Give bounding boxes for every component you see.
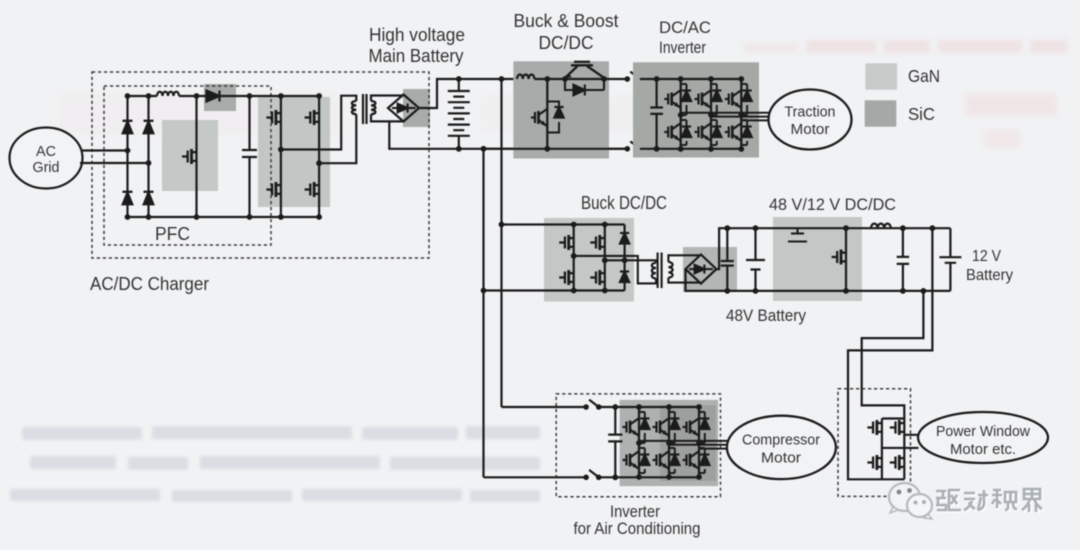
svg-text:PFC: PFC bbox=[155, 224, 190, 244]
inverter bottom rail bbox=[640, 148, 741, 150]
svg-text:SiC: SiC bbox=[908, 104, 935, 124]
svg-text:Motor: Motor bbox=[791, 121, 830, 138]
output inductor L3 bbox=[871, 224, 891, 229]
three phase wires to compressor motor bbox=[639, 441, 728, 449]
charger H-bridge left leg bbox=[280, 96, 282, 217]
faint pink ghost text top right bbox=[744, 40, 1068, 148]
antiparallel diode bbox=[547, 102, 559, 133]
buck H-bridge right leg bbox=[604, 225, 606, 291]
wire secondary to diamond bbox=[371, 96, 404, 122]
rectifier diode D4 bbox=[144, 192, 154, 204]
rectifier column 2 bbox=[147, 96, 149, 217]
window bridge left leg bbox=[881, 419, 883, 480]
node boost top bbox=[194, 93, 200, 99]
transformer T1 secondary winding bbox=[371, 101, 375, 114]
diamond internal diode bbox=[689, 265, 713, 274]
svg-text:12 V: 12 V bbox=[972, 248, 1001, 265]
wires to power window motor bbox=[882, 435, 919, 448]
transformer T1 core bbox=[363, 94, 367, 124]
SiC shaded box behind boost diode bbox=[204, 84, 236, 111]
junction dots rectifier bbox=[125, 93, 152, 220]
boost igbt leg bbox=[546, 79, 548, 149]
switch aircon top bbox=[583, 400, 601, 410]
boost mosfet Q1 bbox=[182, 149, 197, 164]
GaN shaded box behind charger H-bridge bbox=[258, 97, 330, 207]
top rail with inductor L2 bbox=[517, 75, 534, 80]
svg-text:Traction: Traction bbox=[785, 104, 836, 121]
svg-text:DC/AC: DC/AC bbox=[659, 18, 711, 37]
transformer T1 primary winding bbox=[352, 101, 356, 114]
Compressor Motor ellipse bbox=[727, 416, 836, 479]
aircon leg 2 bbox=[653, 404, 680, 480]
wechat watermark big bubble bbox=[889, 483, 920, 513]
aircon top rail bbox=[502, 406, 587, 408]
mosfet Q14 bbox=[867, 455, 882, 470]
buck output rectifier diamond bbox=[686, 255, 717, 284]
wire 12V node down to window bridge bottom bbox=[848, 228, 932, 479]
wire bridge left mid to transformer T2 bottom bbox=[574, 256, 656, 284]
charger H-bridge right leg bbox=[318, 96, 320, 217]
svg-text:Inverter: Inverter bbox=[659, 39, 706, 57]
mosfet Q5 bbox=[305, 182, 320, 197]
legend GaN swatch bbox=[865, 63, 897, 89]
aircon leg 3 bbox=[683, 404, 710, 480]
svg-text:AC: AC bbox=[36, 143, 56, 160]
aircon bottom rail bbox=[484, 476, 587, 478]
transformer T2 core bbox=[658, 253, 662, 289]
dc link capacitor C2 bbox=[650, 79, 663, 149]
mosfet Q13 bbox=[890, 420, 905, 435]
svg-text:Battery: Battery bbox=[966, 267, 1013, 284]
node battery plus bbox=[456, 76, 462, 82]
svg-text:Grid: Grid bbox=[33, 159, 60, 176]
svg-text:Motor etc.: Motor etc. bbox=[950, 441, 1016, 458]
faint grey text rows bottom left bbox=[10, 426, 540, 502]
GaN shaded box 48V/12V DC/DC bbox=[773, 217, 862, 301]
rectifier diode D1 bbox=[123, 121, 133, 133]
inverter leg 3 bbox=[725, 76, 752, 152]
mosfet Q11 bbox=[832, 250, 847, 265]
svg-text:High voltage: High voltage bbox=[369, 25, 465, 45]
svg-text:DC/DC: DC/DC bbox=[539, 33, 594, 53]
12V battery bbox=[939, 228, 961, 291]
wire diamond bottom to HV minus rail bbox=[389, 121, 627, 148]
watermark characters 驱动视界 bbox=[938, 491, 1044, 514]
inductor L1 bbox=[157, 92, 179, 96]
switch top rail bbox=[625, 72, 643, 82]
Power Window Motor ellipse bbox=[918, 412, 1048, 463]
Traction Motor ellipse bbox=[769, 90, 852, 150]
buck igbt above rail bbox=[565, 62, 604, 78]
svg-text:GaN: GaN bbox=[908, 66, 940, 86]
window bridge right leg bbox=[903, 419, 905, 480]
PFC bottom rail bbox=[128, 216, 320, 218]
svg-text:for Air Conditioning: for Air Conditioning bbox=[574, 519, 701, 538]
wire bridge right mid to transformer primary bottom bbox=[319, 114, 356, 163]
vertical feed to buck dcdc and aircon top bbox=[500, 79, 502, 407]
mosfet Q12 bbox=[867, 420, 882, 435]
SiC shaded box Buck&Boost bbox=[513, 61, 609, 158]
transformer T2 primary winding bbox=[652, 263, 656, 279]
igbt Q6 bbox=[531, 109, 547, 126]
wire AC grid to rectifier upper bbox=[82, 149, 128, 151]
svg-text:48 V/12 V DC/DC: 48 V/12 V DC/DC bbox=[769, 195, 896, 214]
switch aircon bottom bbox=[583, 470, 601, 480]
node boost bottom bbox=[194, 214, 200, 220]
bottom rail bbox=[484, 148, 628, 150]
wechat watermark small bubble bbox=[907, 494, 932, 519]
mosfet Q8 bbox=[590, 235, 605, 250]
svg-text:AC/DC Charger: AC/DC Charger bbox=[90, 274, 209, 294]
diode D7 bbox=[620, 233, 629, 244]
svg-text:Motor: Motor bbox=[761, 450, 801, 467]
SiC shaded box DC/AC inverter bbox=[633, 62, 759, 157]
svg-text:48V Battery: 48V Battery bbox=[726, 307, 807, 325]
wire bridge right mid to transformer T2 top bbox=[605, 260, 656, 263]
SiC shaded box aircon inverter bbox=[620, 400, 719, 486]
transformer T2 secondary winding bbox=[668, 262, 672, 278]
aircon leg 1 bbox=[623, 404, 650, 480]
buck H-bridge left leg bbox=[573, 225, 575, 291]
small gate element bbox=[788, 228, 807, 241]
AC Grid ellipse bbox=[10, 128, 83, 189]
diode column of buck bridge bbox=[623, 225, 625, 291]
window bridge top rail bbox=[882, 417, 904, 419]
AC/DC Charger outer dashed box bbox=[92, 72, 429, 258]
mosfet Q9 bbox=[559, 270, 574, 285]
rectifier diode D2 bbox=[144, 121, 154, 133]
GaN shaded box Buck DC/DC bbox=[544, 218, 634, 302]
wire diamond to 48V minus rail bbox=[686, 269, 951, 291]
legend SiC swatch bbox=[865, 100, 897, 126]
PFC top rail with boost inductor L1 bbox=[128, 95, 320, 97]
PFC dashed box bbox=[104, 86, 271, 245]
boost mosfet leg bbox=[195, 96, 197, 217]
svg-text:Buck & Boost: Buck & Boost bbox=[514, 11, 619, 31]
buck top rail bbox=[502, 223, 625, 225]
wire diamond to HV plus rail bbox=[419, 79, 517, 108]
high voltage main battery bbox=[448, 79, 470, 149]
mosfet Q2 bbox=[266, 110, 281, 125]
switch bottom rail bbox=[625, 141, 643, 151]
buck bottom rail bbox=[484, 289, 625, 291]
darker core of aircon shaded box bbox=[660, 405, 716, 481]
48V battery bbox=[746, 228, 765, 291]
svg-text:Power Window: Power Window bbox=[936, 423, 1030, 440]
inverter leg 2 bbox=[695, 76, 722, 152]
mosfet Q7 bbox=[559, 235, 574, 250]
power window dashed box bbox=[838, 389, 911, 497]
node battery minus bbox=[456, 146, 462, 152]
diamond internal diode bbox=[392, 103, 416, 112]
sync mosfet leg bbox=[845, 228, 847, 291]
SiC shaded box behind charger rectifier diamond bbox=[403, 89, 430, 127]
wire diamond to 48V plus rail bbox=[716, 228, 950, 269]
shaded box behind buck rectifier diamond bbox=[683, 247, 737, 292]
mosfet Q10 bbox=[590, 270, 605, 285]
rectifier diode D3 bbox=[123, 192, 133, 204]
mosfet Q15 bbox=[890, 455, 905, 470]
wire 48V minus down to window bridge top bbox=[862, 291, 924, 419]
12V filter capacitor C4 bbox=[897, 228, 909, 291]
svg-text:Buck DC/DC: Buck DC/DC bbox=[581, 193, 667, 213]
boost diode D5 bbox=[207, 91, 220, 102]
GaN shaded box behind boost mosfet bbox=[162, 120, 218, 191]
inverter leg 1 bbox=[664, 76, 691, 152]
aircon inverter dashed box bbox=[556, 394, 720, 497]
diode D8 bbox=[620, 272, 629, 283]
three phase wires to traction motor bbox=[681, 113, 769, 121]
wires secondary to diamond bbox=[668, 255, 699, 282]
charger output rectifier diamond bbox=[388, 95, 419, 122]
rectifier column 1 bbox=[126, 96, 128, 217]
48V filter capacitor C3 bbox=[721, 228, 734, 291]
mosfet Q4 bbox=[266, 182, 281, 197]
svg-text:Main Battery: Main Battery bbox=[369, 46, 464, 66]
DC link capacitor C1 bbox=[242, 96, 257, 217]
dc link capacitor C5 bbox=[608, 407, 622, 477]
wire AC grid to rectifier lower bbox=[80, 162, 149, 164]
mosfet Q3 bbox=[305, 110, 320, 125]
series diode D6 bbox=[565, 79, 604, 96]
inverter top rail bbox=[640, 78, 741, 80]
wire bridge left mid to transformer primary top bbox=[281, 96, 356, 150]
svg-text:Compressor: Compressor bbox=[742, 432, 820, 449]
faint pink ghost headline left bbox=[58, 92, 720, 136]
vertical feed minus to aircon bottom bbox=[482, 149, 484, 478]
